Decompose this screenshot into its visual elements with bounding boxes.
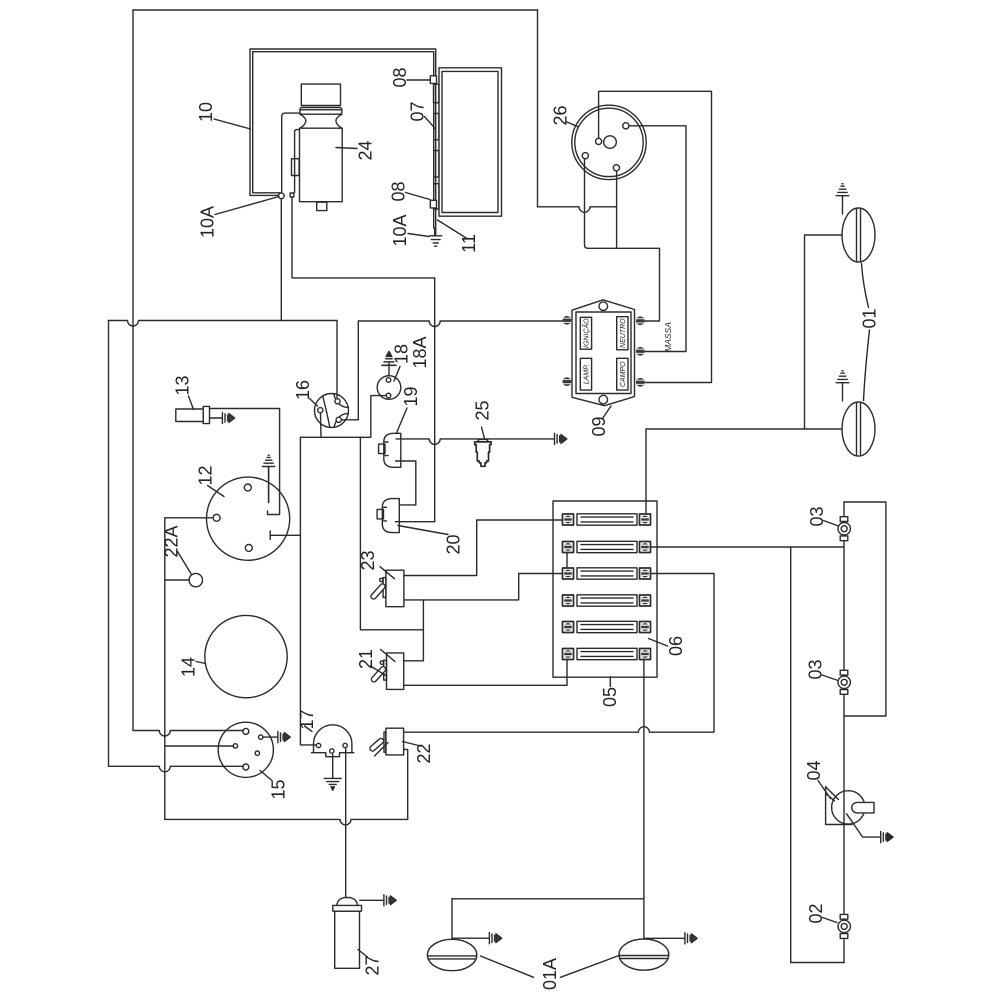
switch 15 terminal top bbox=[243, 728, 249, 734]
svg-text:21: 21 bbox=[356, 649, 376, 669]
wire: left frame vertical x=133 down to ignition switch top feed bbox=[132, 10, 134, 731]
wire: left vertical x=108.5 from bus down to switch15 bottom feed bbox=[108, 321, 110, 767]
label 03 bbox=[806, 659, 839, 680]
dynamo 26 outer rings bbox=[572, 105, 646, 179]
label 01 leader lines bbox=[862, 264, 870, 401]
wire: switch 23 top wire to riser x=476.7 to fuse row1 left bbox=[404, 520, 563, 576]
wire: dynamo chassis horizontal y=206.8 with hop over x=584.5 bbox=[538, 207, 617, 213]
inline connector 03 lower bbox=[838, 670, 850, 694]
label 01A bbox=[540, 958, 560, 990]
switch 17 terminal right bbox=[343, 743, 347, 747]
svg-text:25: 25 bbox=[473, 400, 493, 420]
svg-text:17: 17 bbox=[297, 709, 317, 729]
fuse 1 bbox=[563, 514, 651, 525]
junction block 16 terminal top bbox=[335, 399, 340, 404]
wire: right rail x=844 from big rectangle top down to bottom corner bbox=[843, 502, 845, 963]
label 10A bbox=[198, 197, 280, 239]
wire: vertical x=407.7 up to switch 22 bottom terminal bbox=[404, 749, 408, 819]
fuse 3 bbox=[563, 568, 651, 579]
light switch 04 bbox=[826, 787, 874, 825]
toggle switch 21 bbox=[370, 649, 403, 689]
label 19 bbox=[397, 386, 422, 433]
label 11 bbox=[438, 220, 480, 253]
ground: arrow right at sender 13 bbox=[222, 412, 234, 423]
svg-text:01A: 01A bbox=[540, 958, 560, 990]
regulator bolt terminal right top bbox=[636, 316, 645, 325]
label 08 bbox=[389, 181, 431, 201]
dynamo 26 brush terminal lower-left bbox=[582, 153, 588, 159]
wire: fuse row1 right riser x=646 and headlamp feed y=429 bbox=[646, 429, 842, 514]
gauge 12 terminal top bbox=[244, 484, 251, 491]
wire: gauge 12 internal electrode under ground bbox=[268, 467, 270, 503]
toggle switch 23 bbox=[370, 567, 404, 607]
svg-text:08: 08 bbox=[390, 67, 410, 87]
wire: drop x=358.3 from bus through fuse holder 18 branch to switch16 right terminal bbox=[341, 321, 358, 420]
svg-text:08: 08 bbox=[389, 181, 409, 201]
label 24 bbox=[336, 140, 376, 160]
toggle switch 22 bbox=[369, 728, 404, 756]
wire: vertical x=423.4 from switch23 bottom wire down to switch21 top wire bbox=[422, 600, 424, 661]
fuse 4 bbox=[563, 595, 651, 606]
wire: fuse row2-row3 left terminal link bbox=[566, 553, 568, 569]
inline connector 03 upper bbox=[838, 517, 850, 541]
switch 15 terminal bottom bbox=[243, 764, 249, 770]
dip switch 17 bbox=[312, 725, 354, 757]
svg-text:26: 26 bbox=[551, 105, 571, 125]
label 22 bbox=[403, 742, 435, 764]
label 21 bbox=[356, 649, 386, 676]
junction block 16 bbox=[315, 394, 349, 428]
battery terminal 08 bottom bbox=[430, 200, 436, 208]
battery cell tab bbox=[434, 84, 439, 103]
fuel tank sender 13 bbox=[176, 406, 210, 423]
wire: cylinder 27 ground lead bbox=[360, 899, 384, 901]
gauge 12 terminal left bbox=[213, 514, 220, 521]
fuse 5 bbox=[563, 621, 651, 632]
battery terminal 08 top bbox=[430, 76, 436, 84]
label 18A bbox=[410, 336, 430, 368]
svg-text:IGNIÇÃO: IGNIÇÃO bbox=[582, 318, 591, 348]
wire: link horn 19 bottom to horn 20 top bbox=[396, 461, 416, 505]
regulator bolt terminal left bottom bbox=[563, 377, 572, 386]
ground: hatched cone above gauge 12 electrode bbox=[262, 455, 274, 466]
switch 15 terminal right bbox=[259, 735, 263, 739]
ground: below switch 17 (bars and tip) bbox=[324, 778, 341, 790]
svg-text:04: 04 bbox=[804, 760, 824, 780]
label 25 bbox=[473, 400, 493, 438]
fuse holder 18 terminal bottom bbox=[386, 393, 391, 398]
wire: switch15 bottom feed y=766.3 with hop over x=164.8 bbox=[109, 766, 244, 772]
regulator terminal block CAMPO bbox=[617, 358, 628, 390]
label 13 bbox=[173, 375, 194, 409]
wire: switch 16 left terminal drop to y=437.3 bbox=[320, 413, 323, 437]
regulator bolt terminal right middle bbox=[636, 347, 645, 356]
ground: arrow right at end of horn feed wire (component 25 net) bbox=[555, 433, 567, 444]
label 03 bbox=[807, 506, 839, 526]
wire: switch 21 top terminal horizontal bbox=[405, 660, 424, 662]
wire: vertical x=434.7 from y=277.9 down to sender 20 bottom wire bbox=[434, 278, 436, 522]
ground: hatched cone above headlamp 01 upper bbox=[836, 184, 849, 214]
label 26 bbox=[551, 105, 578, 126]
wire: fuse row3 right loop to switch22 top with hop over x=643.9 bbox=[404, 574, 714, 733]
battery support box 10 (double border) bbox=[250, 49, 436, 228]
fuse panel 06 box bbox=[553, 501, 657, 677]
battery cell tab bbox=[434, 114, 439, 140]
ground: hatched cone above headlamp 01 lower bbox=[836, 371, 849, 401]
horn 19 bbox=[379, 433, 401, 467]
label 17 bbox=[297, 709, 317, 731]
wire: bus y=321 right segment to regulator with hop over x=434.7 bbox=[359, 321, 563, 327]
label 08 bbox=[390, 67, 430, 87]
label 05 bbox=[600, 677, 620, 707]
wire: horizontal y=248.3 to riser x=659.5 into regulator right-top terminal bbox=[588, 248, 660, 321]
svg-text:13: 13 bbox=[173, 375, 193, 395]
wire: gauge 12 right electrode out to x=300.4 bbox=[270, 531, 300, 540]
svg-text:15: 15 bbox=[269, 779, 289, 799]
wire: right tail lamp ground lead bbox=[644, 937, 685, 939]
wire: fuse row2 right to right rail y=547 bbox=[651, 546, 845, 548]
wire: switch15 top feed y=730.5 with hop over x=164.8 bbox=[133, 731, 244, 737]
ground: chassis ground 11 under battery (bars) bbox=[430, 236, 442, 246]
wire: sender 13 signal to gauge 12 bbox=[210, 409, 280, 515]
label 15 bbox=[260, 771, 289, 800]
fuse holder 18 terminal top bbox=[386, 378, 391, 383]
dynamo 26 brush terminal right bbox=[623, 123, 629, 129]
wire: switch 21 bottom wire right to fuse row6 left drop bbox=[404, 660, 567, 686]
switch 17 terminal center bbox=[330, 749, 334, 753]
horn 20 bbox=[377, 499, 399, 533]
svg-text:07: 07 bbox=[408, 101, 428, 121]
wire: vertical x=300.4 from y=437.3 down to switch 17 left terminal bbox=[300, 437, 315, 745]
svg-text:24: 24 bbox=[356, 140, 376, 160]
label 04 bbox=[804, 760, 831, 798]
regulator terminal block NEUTRO bbox=[617, 317, 628, 350]
wire: tail lamp bus y=898.8 bbox=[452, 898, 644, 900]
switch 17 terminal left bbox=[316, 743, 320, 747]
battery cell tab bbox=[434, 151, 439, 177]
label 16 bbox=[293, 380, 318, 406]
fuse 6 bbox=[563, 648, 651, 659]
flasher cylinder 27 bbox=[333, 897, 362, 968]
wire: switch 23 bottom wire right to riser x=518.7 bbox=[404, 574, 563, 600]
wire: stub to indicator 22A bbox=[165, 579, 189, 581]
battery 07 (double border) bbox=[439, 68, 502, 216]
gauge 12 terminal bottom bbox=[245, 544, 252, 551]
svg-text:22A: 22A bbox=[162, 525, 182, 557]
wire: left tail lamp ground lead bbox=[452, 937, 489, 939]
wire: switch 17 center terminal ground stem bbox=[332, 755, 334, 778]
wire: dynamo lower-right brush drop x=616.6 bbox=[616, 171, 618, 248]
label 12 bbox=[196, 465, 225, 496]
wire: horizontal y=437.3 under switch 16 bbox=[300, 436, 370, 438]
svg-text:22: 22 bbox=[414, 743, 434, 763]
switch 15 terminal left bbox=[233, 744, 237, 748]
fuse holder 18 / fuse 18A bbox=[377, 376, 401, 400]
tail lamp 01A right bbox=[619, 939, 669, 970]
battery cell tab bbox=[434, 184, 439, 209]
svg-text:10A: 10A bbox=[198, 206, 218, 238]
wire: sender 20 bottom horizontal to x=434.7 bbox=[396, 521, 435, 523]
wire: fuse row6 right drop x=643.9 down to tail lamp 01A bbox=[643, 660, 645, 939]
wire: battery box square terminal drop x=292.3 then right y=277.9 bbox=[292, 197, 435, 278]
label 09 bbox=[589, 406, 611, 437]
wire: battery box round terminal drop x=281.3 to bus bbox=[280, 199, 282, 321]
ground: hatched cone above fuse holder 18 bbox=[382, 351, 396, 375]
junction block 16 terminal left bbox=[318, 408, 323, 413]
wire: horizontal bus y=320.5 left segment with hop over x=133 bbox=[109, 321, 338, 327]
ground: arrow right at light switch 04 bbox=[881, 832, 893, 843]
wire: accessory vertical x=164.8 from gauge12 left wire down to lamp feed bus bbox=[164, 518, 166, 820]
svg-text:14: 14 bbox=[179, 657, 199, 677]
dynamo 26 center boss bbox=[604, 136, 617, 149]
regulator terminal block LAMP bbox=[580, 358, 591, 390]
ground: arrow right at right tail lamp 01A bbox=[685, 933, 697, 944]
svg-text:23: 23 bbox=[358, 550, 378, 570]
svg-text:05: 05 bbox=[600, 687, 620, 707]
wire: fuse holder 18 bottom terminal down to y=437.3 bbox=[371, 396, 386, 438]
ignition switch 15 bbox=[218, 722, 273, 777]
label 07 bbox=[408, 101, 436, 129]
wire: right rail bottom horizontal y=962.5 bbox=[791, 962, 844, 964]
switch 15 terminal center bbox=[255, 751, 259, 755]
wire: left tail lamp drop x=452 bbox=[451, 899, 453, 939]
voltage regulator 09 housing bbox=[572, 300, 635, 406]
tail lamp 01A left bbox=[427, 939, 476, 970]
wire: switch15 middle terminal feed from x=164.8 bbox=[165, 745, 234, 747]
wire: big right rectangle top right bottom edges bbox=[844, 502, 886, 716]
svg-text:12: 12 bbox=[196, 465, 216, 485]
label 20 bbox=[398, 526, 464, 555]
regulator bolt terminal right bottom bbox=[636, 378, 645, 387]
svg-text:LAMP.: LAMP. bbox=[584, 364, 591, 384]
label 01A leader lines bbox=[481, 956, 620, 978]
wire: horn 19 top feed y=438.9 with hop over x=434.7, to ground arrow bbox=[396, 439, 554, 445]
svg-text:10: 10 bbox=[196, 102, 216, 122]
wire: sender 13 ground lead bbox=[210, 417, 223, 419]
wire: dynamo center brush up and over to regulator right-bottom (CAMPO) bbox=[599, 91, 712, 382]
label 10A bbox=[390, 214, 429, 246]
headlamp 01 upper bbox=[842, 208, 875, 262]
svg-text:03: 03 bbox=[807, 506, 827, 526]
svg-text:19: 19 bbox=[401, 386, 421, 406]
terminal square under box 10 bbox=[290, 193, 294, 197]
terminal circle 10A on box 10 bottom edge bbox=[278, 193, 284, 199]
ground: arrow right at cylinder 27 bbox=[384, 895, 396, 906]
wire: right loop vertical x=790.7 bbox=[790, 547, 792, 963]
fuel gauge 12 bbox=[207, 477, 290, 560]
fuse 2 bbox=[563, 541, 651, 552]
label 23 bbox=[358, 550, 378, 570]
dynamo 26 brush terminal lower-right bbox=[613, 165, 619, 171]
svg-text:16: 16 bbox=[293, 380, 313, 400]
svg-text:27: 27 bbox=[363, 955, 383, 975]
svg-text:18: 18 bbox=[392, 344, 412, 364]
svg-text:11: 11 bbox=[459, 234, 479, 253]
wire: vertical x=360.4 down then to junction x=423.4 bbox=[360, 437, 423, 630]
wire: dynamo right brush over to regulator right-middle bbox=[629, 126, 686, 352]
inline connector 02 bbox=[838, 914, 850, 938]
wire: right frame vertical x=537.5 down to dynamo chassis net bbox=[537, 10, 539, 207]
regulator bolt terminal left top bbox=[563, 316, 572, 325]
svg-text:02: 02 bbox=[806, 903, 826, 923]
ground: arrow right at left tail lamp 01A bbox=[489, 933, 501, 944]
svg-text:20: 20 bbox=[444, 534, 464, 554]
wire: top frame horizontal from left frame to right frame bbox=[133, 9, 538, 11]
svg-text:03: 03 bbox=[806, 659, 826, 679]
regulator terminal block IGNICAO bbox=[580, 317, 591, 349]
dynamo 26 brush terminal center-left bbox=[596, 138, 602, 144]
wire: vertical x=337 from bus down to switch 16 top terminal bbox=[336, 321, 338, 398]
svg-text:18A: 18A bbox=[410, 336, 430, 368]
gauge 14 bbox=[205, 615, 287, 697]
wire: battery negative lead to ground 11 bbox=[435, 228, 436, 235]
label 14 bbox=[179, 657, 206, 677]
ignition coil 24 body bbox=[282, 84, 343, 210]
wire: dynamo lower-left brush drop x=584.5 to y=248.3 bbox=[585, 159, 589, 249]
label 10 bbox=[196, 102, 251, 129]
label 02 bbox=[806, 903, 837, 923]
svg-text:NEUTRO: NEUTRO bbox=[620, 318, 627, 348]
svg-text:CAMPO: CAMPO bbox=[620, 361, 627, 387]
svg-text:06: 06 bbox=[666, 636, 686, 656]
svg-text:01: 01 bbox=[860, 308, 880, 328]
label 27 bbox=[358, 950, 383, 976]
wire: headlamp link vertical x=804.5 and top lamp feed bbox=[805, 235, 843, 429]
wire: switch 04 ground lead bbox=[847, 814, 881, 837]
label 06 bbox=[649, 636, 687, 656]
svg-text:10A: 10A bbox=[390, 214, 410, 246]
label 01 bbox=[860, 308, 880, 328]
svg-text:09: 09 bbox=[589, 416, 609, 436]
wire: gauge 12 left terminal horizontal bbox=[165, 517, 213, 519]
indicator lamp 22A bbox=[189, 573, 202, 586]
wire: bottom horizontal y=819.4 with hop over cylinder27 drop, to switch22 bottom bbox=[165, 819, 408, 825]
headlamp 01 lower bbox=[842, 402, 875, 456]
junction block 16 terminal bottom-right bbox=[336, 417, 341, 422]
brake light switch 25 bbox=[475, 439, 491, 466]
wire: switch 15 right terminal ground lead bbox=[263, 736, 278, 738]
label 22A bbox=[162, 525, 192, 574]
svg-text:MASSA: MASSA bbox=[663, 322, 673, 352]
label 18 bbox=[392, 344, 412, 381]
wire: switch 17 right terminal drop x=345.7 to cylinder 27 bbox=[345, 749, 347, 898]
ground: arrow right at switch 15 bbox=[278, 732, 290, 743]
